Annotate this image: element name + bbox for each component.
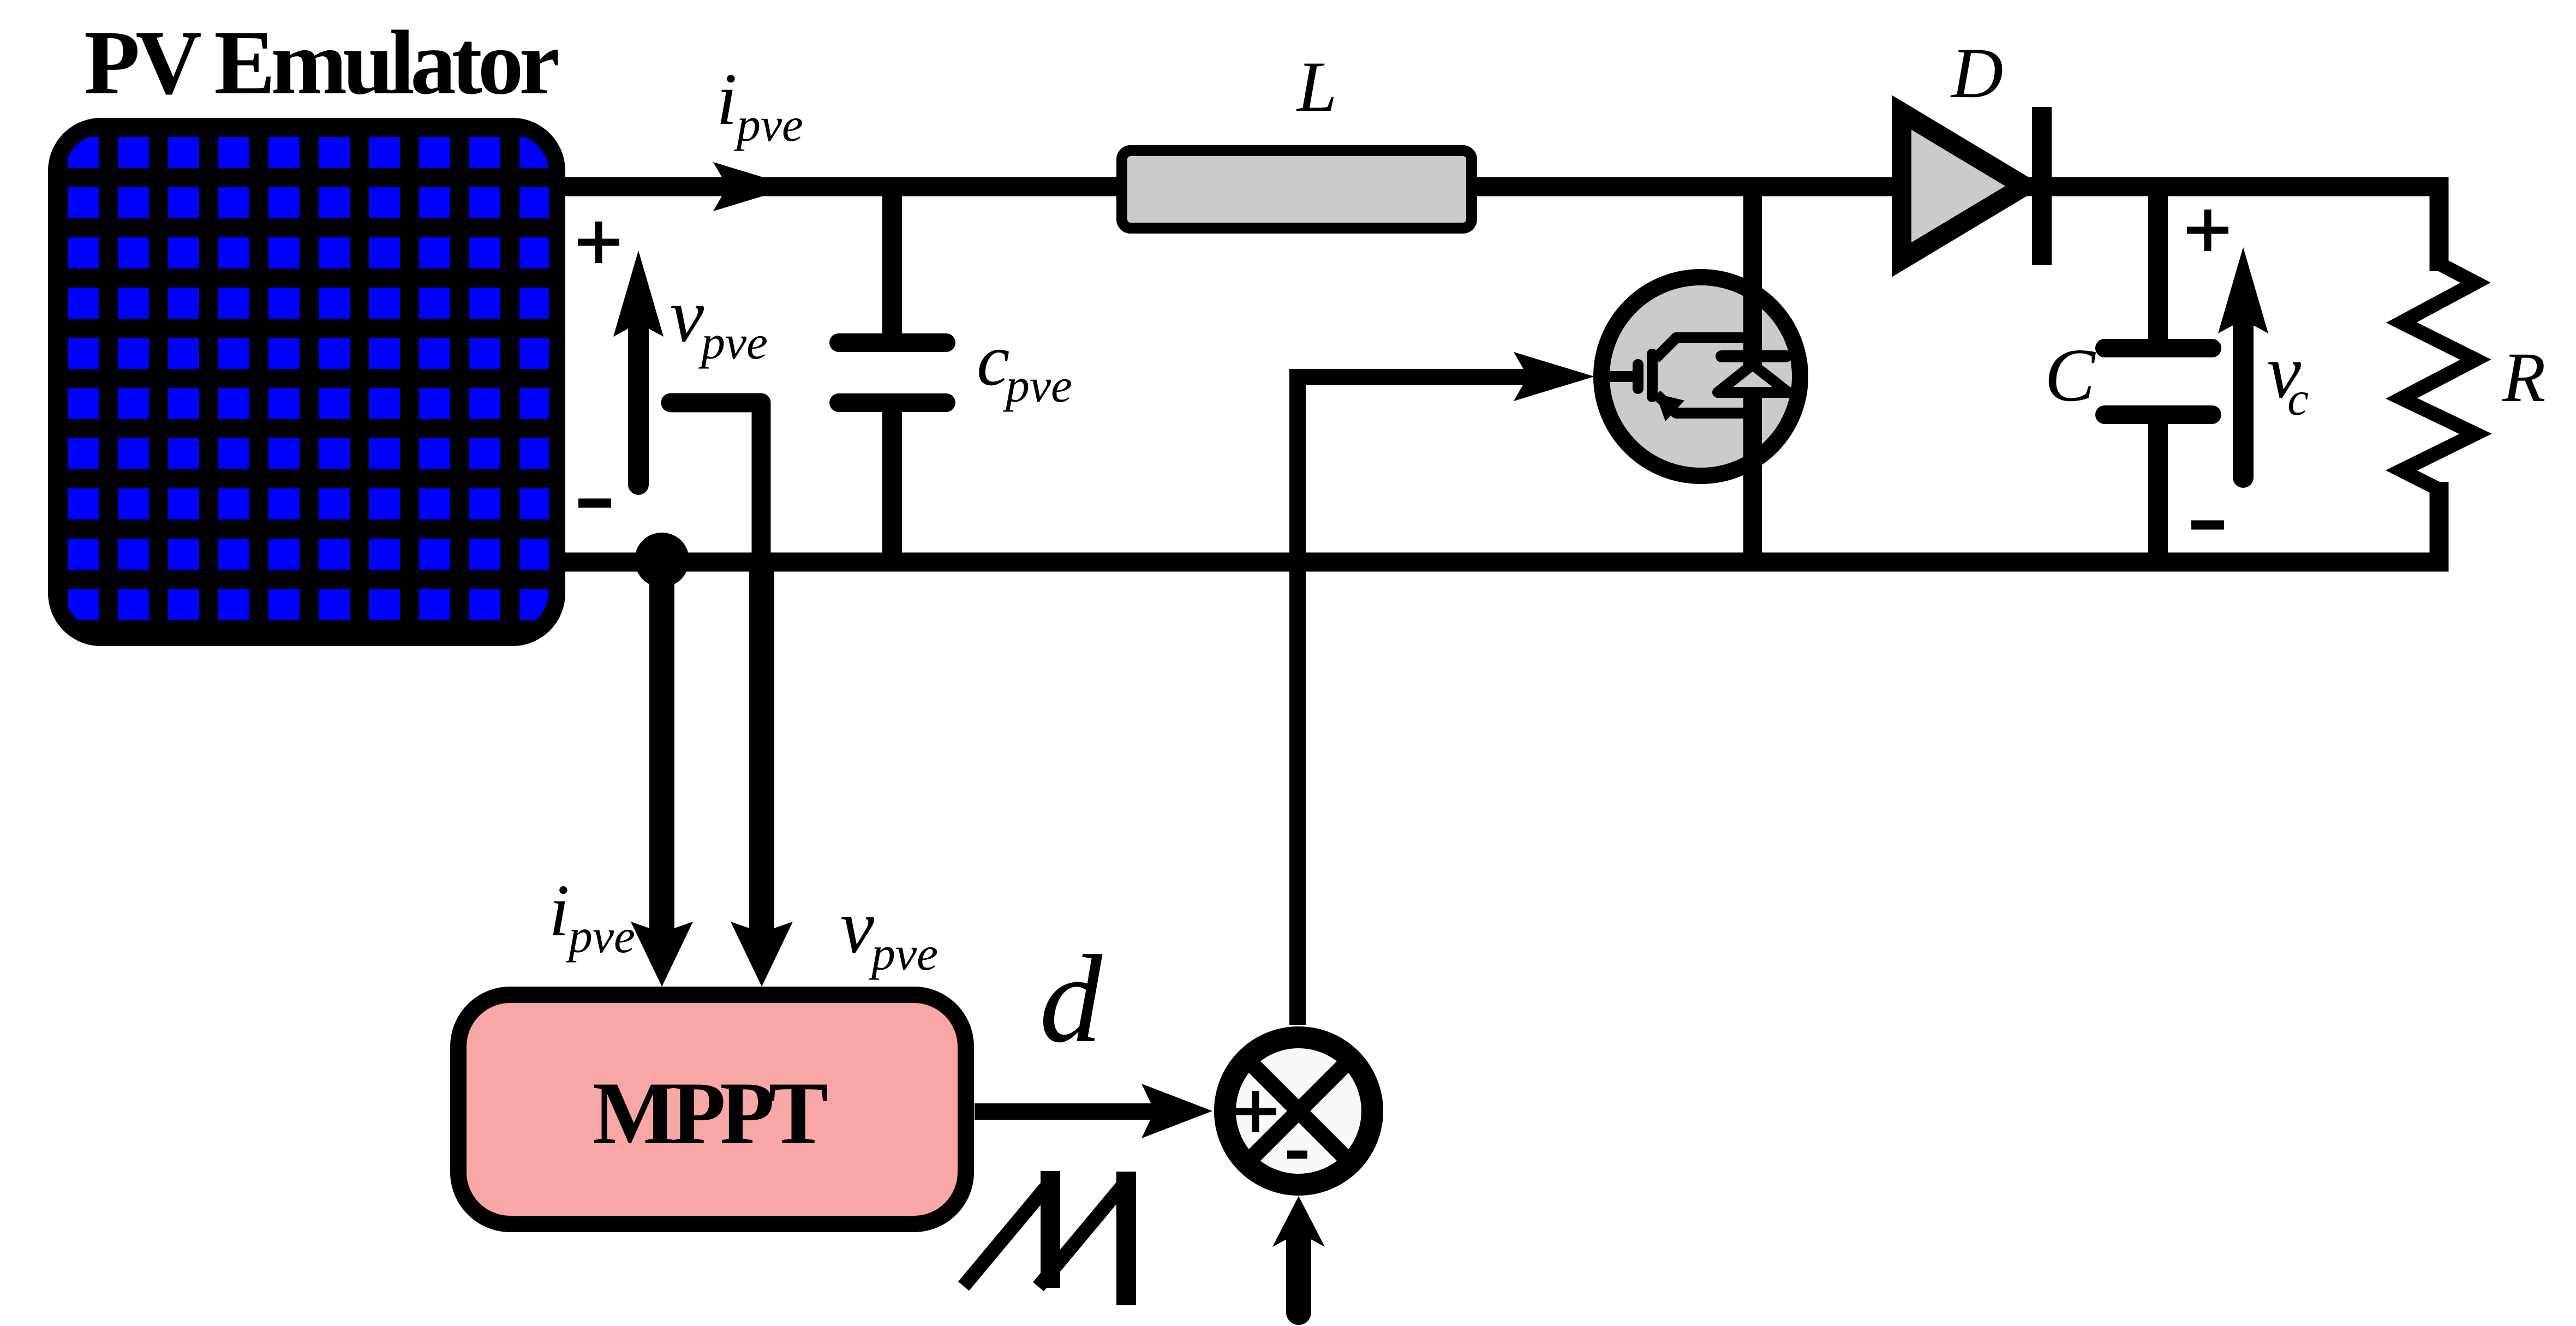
emitter arrowhead [1655, 393, 1684, 421]
capacitor c_pve: bottom plate [839, 393, 946, 412]
svg-text:R: R [2502, 338, 2545, 417]
sense line v_pve down to MPPT [749, 562, 774, 939]
arrowhead into comparator (d) [1141, 1084, 1212, 1138]
capacitor c_pve: bottom lead [882, 412, 902, 562]
capacitor C: top plate [2105, 339, 2212, 357]
comparator minus [1287, 1151, 1307, 1159]
comparator X cross [1251, 1064, 1346, 1158]
svg-text:pve: pve [1002, 360, 1072, 413]
body circle [1601, 277, 1800, 476]
svg-text:c: c [977, 319, 1009, 401]
svg-text:pve: pve [868, 928, 938, 981]
PV emulator panel [48, 118, 565, 646]
wire: bottom bus [562, 553, 2430, 572]
arrowhead i_pve on top bus [713, 162, 794, 211]
capacitor c_pve: top plate [839, 333, 946, 352]
antiparallel diode triangle [1718, 365, 1788, 392]
svg-text:MPPT: MPPT [593, 1064, 828, 1163]
wire MPPT output to comparator [975, 1103, 1157, 1120]
plus sign at C [2187, 210, 2228, 251]
sawtooth symbol [964, 1171, 1129, 1305]
svg-text:pve: pve [733, 99, 803, 152]
sense stub v_pve [671, 403, 761, 562]
wire comparator to IGBT gate [1298, 377, 1528, 1025]
sense line i_pve down to MPPT [649, 560, 674, 939]
junction dot on bottom bus [635, 533, 689, 587]
wire: top bus from PV to right corner [562, 177, 2430, 196]
arrowhead into IGBT gate [1514, 352, 1594, 401]
gate bar tall [1647, 354, 1658, 397]
svg-text:L: L [1296, 46, 1337, 127]
rail inside circle (over fill) [1743, 284, 1762, 472]
inductor L body [1122, 151, 1472, 228]
capacitor C: bottom plate [2105, 405, 2212, 424]
collector-emitter rail [1743, 187, 1762, 562]
antiparallel diode cathode bar [1722, 350, 1786, 362]
wire: top-right corner [2390, 187, 2439, 271]
svg-text:i: i [716, 58, 737, 140]
arrow from below into comparator [1286, 1238, 1311, 1312]
diode D cathode bar [2032, 107, 2052, 265]
svg-text:v: v [840, 885, 875, 969]
MPPT block [458, 995, 966, 1224]
comparator plus [1235, 1091, 1276, 1132]
svg-text:pve: pve [698, 316, 768, 369]
emitter path [1657, 395, 1753, 413]
svg-text:i: i [549, 870, 570, 952]
arrowhead into MPPT (i_pve) [631, 922, 693, 987]
arrowhead into MPPT (v_pve) [731, 922, 793, 987]
minus sign at C [2191, 521, 2224, 530]
capacitor C: bottom lead [2148, 424, 2168, 562]
resistor R zigzag [2401, 264, 2476, 489]
minus sign at PV output [578, 499, 611, 508]
gate bar short [1633, 365, 1643, 389]
svg-text:c: c [2287, 373, 2309, 426]
comparator circle [1225, 1037, 1372, 1185]
svg-text:d: d [1039, 929, 1103, 1068]
gate lead inside [1601, 371, 1634, 382]
collector path [1655, 338, 1753, 359]
wire: bottom-right corner [2390, 482, 2439, 562]
svg-text:D: D [1950, 33, 2003, 113]
IGBT Q1 [1601, 187, 1800, 562]
arrow v_pve (vertical, up) [628, 316, 649, 485]
arrow v_c (vertical, up) [2233, 313, 2254, 477]
svg-text:pve: pve [565, 910, 635, 963]
svg-text:v: v [670, 273, 704, 358]
diode D triangle [1902, 112, 2024, 260]
svg-text:PV Emulator: PV Emulator [84, 12, 560, 114]
capacitor c_pve: top lead [882, 187, 902, 333]
svg-text:C: C [2045, 333, 2096, 417]
plus sign at PV output [578, 222, 619, 263]
capacitor C: top lead [2148, 187, 2168, 340]
